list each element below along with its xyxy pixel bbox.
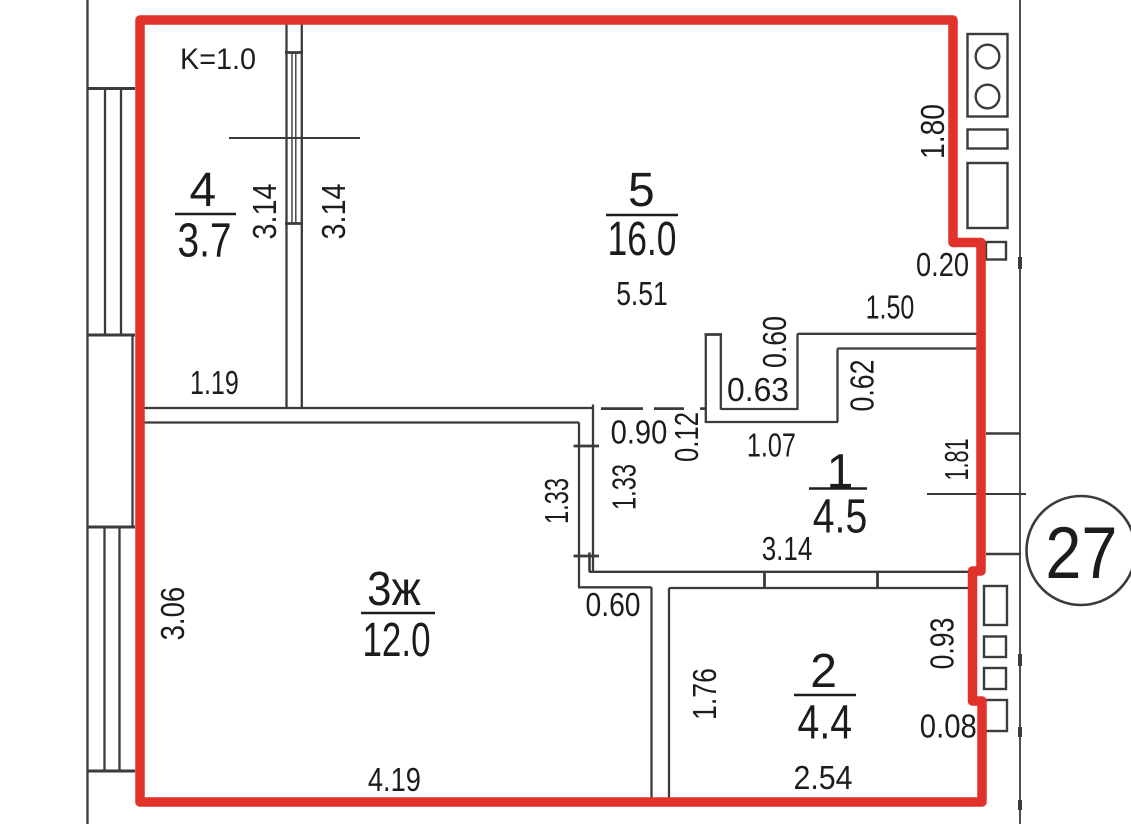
svg-text:3.06: 3.06 [154, 587, 191, 641]
wall room5 south upper line [798, 333, 978, 335]
wall room2 north line right part [669, 587, 977, 589]
node vent circle 2 [976, 85, 1000, 109]
wire building outer wall left [86, 0, 88, 824]
node room4 fraction bar [175, 213, 236, 216]
svg-text:0.62: 0.62 [844, 360, 881, 412]
node axis mark 3 [1018, 727, 1022, 737]
wall niche pier left [705, 334, 707, 423]
wire dimension mark room4 [229, 137, 360, 139]
wall niche pier right [720, 334, 722, 410]
wall W1 right line [592, 405, 594, 573]
node dim tick above wall [588, 553, 591, 572]
node room5 fraction bar [606, 214, 678, 217]
node wall tick b [876, 572, 879, 589]
window sash line b [295, 53, 297, 224]
wall W1 left line [578, 423, 580, 588]
node balcony window block top-left bottom cap [87, 334, 136, 337]
svg-text:5: 5 [628, 164, 655, 217]
svg-text:0.93: 0.93 [924, 618, 961, 670]
node balcony window block bottom-left cap [87, 526, 136, 529]
wire balcony2 glazing line b [118, 528, 120, 770]
svg-text:1.33: 1.33 [538, 478, 575, 524]
svg-text:4.5: 4.5 [813, 491, 868, 544]
wall room4 south top line [144, 407, 593, 409]
wire balcony1 glazing line b [120, 89, 122, 334]
node outer tick upper right [986, 432, 1020, 435]
node room1 fraction bar [809, 487, 867, 490]
svg-text:27: 27 [1045, 513, 1117, 594]
svg-text:5.51: 5.51 [616, 275, 668, 312]
svg-text:0.63: 0.63 [727, 371, 789, 408]
node shaft square 2 [984, 637, 1006, 658]
wire leader line to flat number [927, 493, 1026, 495]
node wall tick a [763, 572, 766, 589]
svg-text:1.19: 1.19 [190, 364, 239, 401]
svg-text:0.08: 0.08 [920, 708, 977, 745]
wall niche shelf lower [705, 421, 838, 423]
node outer tick lower right [986, 553, 1021, 556]
node vent shaft box B [968, 130, 1008, 149]
svg-text:3.14: 3.14 [246, 184, 283, 240]
wire pier between balcony windows [131, 335, 133, 527]
svg-text:2: 2 [810, 645, 837, 698]
window end cap top [285, 51, 303, 54]
wall room3-room2 left line [650, 587, 652, 798]
wall niche vertical D [836, 349, 838, 423]
svg-text:4.19: 4.19 [368, 761, 421, 798]
svg-text:3.14: 3.14 [762, 530, 813, 567]
svg-text:3.14: 3.14 [315, 184, 352, 240]
wall niche shelf upper [721, 408, 799, 410]
wall niche vertical C [796, 334, 798, 409]
wire building outer wall right [1019, 0, 1021, 824]
node shaft square 1 [984, 586, 1007, 625]
node vent circle 1 [976, 45, 1000, 69]
wall room4-room5 right line [301, 24, 303, 408]
node shaft square 3 [984, 668, 1006, 689]
wire red apartment boundary [140, 20, 982, 802]
svg-text:0.20: 0.20 [916, 246, 969, 283]
svg-text:0.12: 0.12 [668, 412, 705, 462]
svg-text:0.60: 0.60 [756, 316, 793, 368]
wall room5 south lower line [838, 347, 978, 349]
svg-text:K=1.0: K=1.0 [180, 43, 256, 76]
node room2 fraction bar [794, 694, 856, 697]
node vent shaft box A [968, 34, 1008, 117]
wire balcony2 glazing line a [103, 528, 105, 770]
node room3 fraction bar [361, 612, 435, 615]
node flat number circle 27 [1027, 496, 1131, 605]
svg-text:1.50: 1.50 [866, 289, 915, 326]
wall room4-room5 left line [285, 24, 287, 408]
svg-text:3ж: 3ж [367, 563, 421, 616]
svg-text:4.4: 4.4 [798, 697, 853, 750]
wire dashed partition room5-room1 [601, 407, 706, 410]
node axis mark 4 [1018, 800, 1022, 810]
svg-text:1.07: 1.07 [747, 427, 796, 464]
node W1 tick upper [574, 445, 600, 448]
svg-text:1.81: 1.81 [938, 439, 975, 481]
window sash line a [291, 53, 293, 224]
svg-text:1.76: 1.76 [686, 668, 723, 720]
svg-text:16.0: 16.0 [608, 213, 677, 266]
svg-text:2.54: 2.54 [794, 759, 853, 796]
node shaft square 4 [984, 700, 1007, 731]
svg-text:12.0: 12.0 [363, 614, 431, 667]
node vent shaft box D [986, 242, 1006, 260]
svg-text:3.7: 3.7 [178, 215, 232, 268]
svg-text:0.90: 0.90 [611, 414, 668, 451]
node axis mark 2 [1018, 654, 1022, 666]
node balcony window block bottom-left bottom cap [87, 770, 136, 773]
node axis mark 1 [1018, 257, 1022, 269]
node W1 tick lower [574, 555, 600, 558]
node vent shaft box C [968, 163, 1008, 228]
wall room4 south bottom line [144, 421, 579, 423]
svg-text:0.60: 0.60 [586, 586, 641, 623]
svg-text:1.80: 1.80 [914, 104, 951, 159]
wall room3-room2 right line [668, 588, 670, 798]
wall room1 south line [589, 571, 977, 573]
window end cap bottom [285, 222, 303, 225]
wire balcony1 glazing line a [104, 89, 106, 334]
wall room2 north line left part [578, 586, 652, 588]
node niche pier cap [705, 333, 723, 336]
svg-text:4: 4 [189, 164, 216, 217]
node balcony window block top-left cap [87, 87, 136, 90]
svg-text:1.33: 1.33 [606, 464, 643, 510]
